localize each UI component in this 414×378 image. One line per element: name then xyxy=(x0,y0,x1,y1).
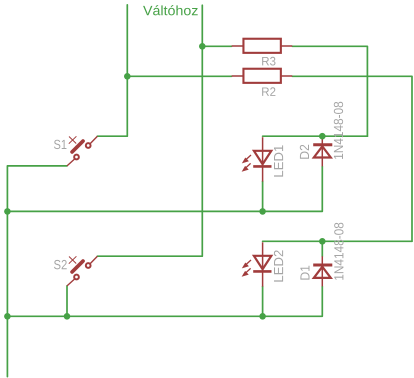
wire D1 top stub xyxy=(321,241,323,256)
wire LED2 bottom xyxy=(262,286,264,316)
switch S1 xyxy=(67,136,97,166)
wire R2 right to LED2/D1 net xyxy=(292,76,412,241)
junction LED2 bottom xyxy=(259,313,266,320)
wire net Váltóhoz left vertical to S1 upper xyxy=(97,5,127,136)
wire LED1 bottom xyxy=(262,181,264,211)
junction R3 net xyxy=(199,43,206,50)
resistor R3 xyxy=(232,39,293,53)
diode D2 1N4148-08 xyxy=(313,137,332,166)
junction mid rail left xyxy=(4,208,11,215)
wire S2 lower xyxy=(66,286,68,316)
wire LED2 D1 top horizontal xyxy=(263,240,412,242)
label R2 xyxy=(262,87,275,96)
wire Váltóhoz right vertical to S2 upper xyxy=(97,5,202,256)
switch S2 xyxy=(67,256,97,286)
label 1N4148-08 (D2 value) xyxy=(334,102,343,159)
wire bottom rail to D1 bottom xyxy=(7,286,322,316)
junction D1 top xyxy=(319,238,326,245)
junction R2 net xyxy=(124,73,131,80)
resistor R2 xyxy=(232,69,293,83)
junction LED1 bottom xyxy=(259,208,266,215)
label net Váltóhoz xyxy=(143,5,198,15)
label R3 xyxy=(262,57,275,66)
label S2 xyxy=(54,260,67,269)
label LED1 xyxy=(274,145,283,176)
junction D2 top xyxy=(319,133,326,140)
wire LED1 D2 top horizontal xyxy=(263,135,368,137)
label D1 xyxy=(300,266,309,280)
junction bottom rail left xyxy=(4,313,11,320)
LED LED2 xyxy=(243,242,272,286)
wire middle rail to D2 bottom xyxy=(7,166,322,211)
label LED2 xyxy=(274,250,283,281)
wire R3 left xyxy=(202,45,231,47)
label D2 xyxy=(300,145,309,159)
junction S2 bottom xyxy=(64,313,71,320)
label 1N4148-08 (D1 value) xyxy=(334,223,343,280)
wire R3 right to LED1/D2 net xyxy=(292,46,367,136)
label S1 xyxy=(54,140,66,149)
wire R2 left xyxy=(127,75,231,77)
diode D1 1N4148-08 xyxy=(313,256,332,286)
LED LED1 xyxy=(243,137,272,181)
wire S1 lower to left rail down xyxy=(7,166,67,377)
